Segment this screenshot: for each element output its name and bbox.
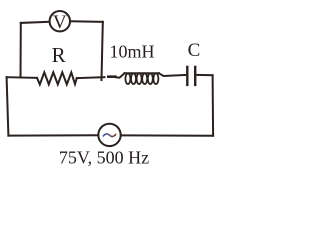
svg-text:V: V [53,12,67,33]
wire resistor to junction [77,77,105,78]
inductor L1 loops [125,73,158,84]
wire bottom right segment [121,134,213,136]
wire voltmeter loop right leg [102,22,103,80]
capacitor C left plate [186,67,188,85]
wire voltmeter loop top-left segment [21,22,50,23]
wire coil to capacitor [159,73,186,76]
wire capacitor to top-right corner [196,74,212,76]
AC source circle [98,124,120,146]
wire dash to coil entry [116,73,125,77]
wire right vertical [212,75,215,136]
wire voltmeter loop top-right segment [70,20,103,23]
AC source tilde [103,134,115,137]
svg-text:10mH: 10mH [110,42,155,62]
svg-text:R: R [52,43,66,67]
wire bottom left segment [8,134,98,136]
capacitor C right plate [194,67,196,85]
svg-text:75V, 500 Hz: 75V, 500 Hz [59,148,149,168]
inductor L1 top line [125,72,160,74]
wire main line left segment [7,76,37,79]
wire voltmeter loop left leg [20,23,22,78]
svg-text:C: C [188,40,201,61]
wire left vertical [7,77,9,135]
dash wire break [108,75,115,78]
voltmeter V1 circle [50,11,70,31]
resistor R zigzag [37,72,77,84]
